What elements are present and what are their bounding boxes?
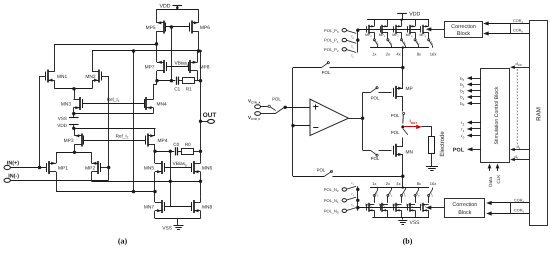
wire MP5 source to VDD [156,9,158,22]
svg-text:fb: fb [377,40,380,45]
svg-text:POL_N2: POL_N2 [324,187,339,193]
wire to electrode [422,127,432,137]
wire input d4 [510,145,529,152]
wire MN1 drain from switch [387,196,389,203]
power VDD supply (top of amplifier) [160,3,183,9]
transistor MN6 [192,161,213,174]
svg-text:MN2: MN2 [85,74,95,80]
switch POL (bottom rail) [317,168,333,177]
wire MN2 source to tail [92,80,94,89]
wire output r0 [461,133,481,139]
svg-text:fb: fb [417,192,420,197]
wire MN7/MN8 gate line [164,206,191,208]
wire MP4 drain to switch [428,32,430,39]
wire gate node to compensation [171,27,173,81]
wire VSS rail [155,219,201,226]
wire MN drain [402,138,404,147]
wire output b4 [460,76,481,82]
transistor MP (driver) [394,86,413,99]
wire MN source [402,155,404,177]
wire MP0 source to rail [374,20,376,27]
svg-text:r0: r0 [352,202,355,207]
svg-text:COR0: COR0 [513,28,523,33]
wire node MN1-drain/MP5-drain (y=44) [55,44,157,46]
wire MN8 source [200,211,202,219]
wire correction to bottom bank gates [426,206,445,210]
svg-text:d200: d200 [516,62,523,67]
svg-text:MP8: MP8 [200,65,210,71]
wire POL bottom rail [293,175,404,178]
svg-text:1x: 1x [372,181,376,186]
svg-text:Stimulation Control Block: Stimulation Control Block [494,86,500,144]
svg-text:f2: f2 [352,54,355,59]
wire MP3 drain to switch [415,32,417,39]
transistor MN2 [85,70,101,83]
svg-text:MP2: MP2 [392,33,399,38]
switch input select [261,105,276,111]
svg-text:MN1: MN1 [57,74,67,80]
wire COR4 (bottom) [486,198,529,205]
wire top bank gate line [358,29,421,31]
wire top bank VDD rail [367,19,429,21]
switch f (top bank 2x) [387,39,393,48]
svg-text:VDD: VDD [160,3,171,9]
transistor MP6 [190,21,211,34]
label Ref_I1 [107,97,120,103]
terminal IN(-) [4,174,109,183]
transistor MP4 (top bank) [420,25,429,38]
switch POL_P2 [347,50,356,59]
wire comp tap to output mirror gates [170,151,172,206]
svg-text:OUT: OUT [203,112,217,119]
svg-text:POL: POL [391,130,400,135]
wire MP1 source to rail [387,20,389,27]
wire C1 to R1 [179,80,183,82]
switch f (bottom bank 8x) [414,188,420,198]
svg-text:MP1: MP1 [379,33,386,38]
label 2x (bottom bank) [386,181,390,186]
wire MN5/MN6 gate line [164,167,191,169]
wire MN1 source to VSS rail [387,210,389,217]
power VSS bar (bias) [58,114,79,121]
wire input d200 [510,62,529,69]
wire MN5 source down [154,172,156,197]
label 1x (bottom bank) [372,181,376,186]
transistor MP3 (top bank) [406,25,415,38]
wire d bus dashed [516,69,518,146]
terminal POL_N1 [324,198,347,204]
node OUT [199,120,202,123]
switch POL (below node) [391,129,408,136]
svg-text:b1: b1 [460,95,464,101]
svg-text:R0: R0 [185,142,191,147]
svg-text:VSS: VSS [162,225,172,231]
wire COR0 (bottom) [486,203,529,216]
wire input CLK [496,164,502,184]
wire MN4 source to VSS rail [428,210,430,217]
wire MN6 drain [200,162,202,164]
wire V_CTR_C branch [261,107,286,113]
caption (b) [403,237,413,246]
svg-text:1x: 1x [372,52,376,57]
wire MN1 source to tail [54,80,56,89]
wire tail rail [55,87,93,90]
wire MP7 drain [155,71,158,83]
svg-text:16x: 16x [430,181,436,186]
wire COR0 (top) [483,24,529,36]
wire MN3 source [72,108,75,116]
svg-text:(b): (b) [403,237,413,246]
svg-text:POL: POL [391,113,400,118]
wire upper branch [363,92,371,94]
terminal POL_N2 [324,187,347,193]
svg-text:MP3: MP3 [64,138,74,144]
wire R0 to OUT rail [194,150,203,153]
svg-text:IOUT: IOUT [410,119,418,125]
wire POL_N join vertical [356,186,359,210]
svg-text:POL: POL [371,96,380,101]
transistor MN0 (bottom bank) [365,203,374,212]
svg-text:MP6: MP6 [200,25,210,31]
wire bottom bank VSS rail [372,217,429,219]
power VDD supply (top bank) [397,11,420,19]
svg-text:POL: POL [453,147,465,153]
svg-text:Block: Block [457,31,470,37]
svg-text:MN6: MN6 [202,166,212,172]
wire R1 to OUT rail [195,79,203,82]
wire MN5 drain [154,151,156,163]
wire output b2 [460,88,481,94]
svg-text:RAM: RAM [536,107,543,121]
svg-text:b4: b4 [460,76,464,82]
switch POL_N0 [347,202,356,210]
svg-text:POL_P1: POL_P1 [324,38,339,44]
switch f (top bank 16x) [428,39,434,48]
switch POL_P1 [347,40,356,49]
transistor MN5 [144,161,165,174]
wire MN1 drain [54,44,56,72]
svg-text:Correction: Correction [451,24,476,30]
svg-text:8x: 8x [417,52,421,57]
wire output branch vertical [362,92,364,150]
wire MN0 drain from switch [374,196,376,203]
wire electrode to ground [431,153,433,166]
wire tail to MN3 drain [74,89,76,99]
wire VDD rail [157,9,199,11]
svg-text:r1: r1 [461,127,464,133]
svg-text:C1: C1 [174,86,180,91]
switch POL (top rail) [322,62,331,75]
terminal OUT [203,112,217,123]
transistor MP5 [146,21,166,34]
wire Ref_I2 gate line [84,140,146,142]
svg-text:MN8: MN8 [202,205,212,211]
block RAM [530,21,548,226]
wire comp row bottom-left [155,150,174,153]
wire bottom bank rail [370,176,429,189]
label 16x (bottom bank) [430,181,436,186]
svg-text:MP: MP [406,86,413,92]
wire correction to top bank gates [426,27,445,31]
wire MN3 drain from switch [415,196,417,203]
switch f (bottom bank 1x) [373,188,379,198]
wire OUT rail [200,51,202,162]
wire MP4 source to rail [428,20,430,27]
svg-text:Data: Data [488,177,493,187]
label POL (input switch) [272,97,281,102]
svg-text:CLK: CLK [496,174,501,184]
svg-text:POL: POL [322,70,331,75]
svg-text:4x: 4x [396,181,400,186]
wire lower branch [363,150,371,152]
transistor MP2 [85,161,100,174]
svg-text:r2: r2 [352,181,355,186]
svg-text:Correction: Correction [452,202,477,208]
svg-text:VBiasb: VBiasb [173,161,188,167]
svg-text:Electrode: Electrode [439,131,446,157]
label 4x (top bank) [396,52,400,57]
svg-text:VCTR_C: VCTR_C [248,115,260,121]
wire POL_P join vertical [356,29,359,53]
svg-text:4x: 4x [396,52,400,57]
svg-text:POL: POL [371,156,380,161]
svg-text:VSS: VSS [410,220,421,226]
block Correction (top) [445,22,483,38]
terminal IN(+) [4,160,47,169]
caption (a) [118,237,128,246]
terminal POL_P0 [324,28,346,34]
wire input d0 [510,155,529,162]
svg-text:POL_P0: POL_P0 [324,28,339,34]
wire OUT stub [201,121,208,123]
wire MP5/MP6 gate line [166,25,189,28]
svg-text:Block: Block [458,210,471,216]
svg-text:b3: b3 [460,82,464,88]
svg-text:MP1: MP1 [58,166,68,172]
switch f (bottom bank 2x) [387,188,393,198]
svg-text:VSS: VSS [58,116,67,121]
node comparator plus input [284,106,287,109]
svg-text:VBiasa: VBiasa [175,61,190,67]
wire VDD wire (y=128.3) [74,128,156,130]
wire minus input [291,124,310,127]
switch f (top bank 8x) [414,39,420,48]
wire MN7 source [154,211,156,219]
transistor MN3 (bottom bank) [406,203,415,212]
wire MN2 drain from switch [401,196,403,203]
svg-text:r2: r2 [461,120,464,126]
wire MP2 source to rail [401,20,403,27]
wire MP1 drain [56,172,58,192]
resistor Electrode [429,131,447,157]
switch POL_P0 [347,31,356,40]
terminal POL_P1 [324,38,346,44]
svg-text:b0: b0 [460,101,464,107]
terminal POL_N0 [324,208,347,214]
svg-text:f0: f0 [352,35,355,40]
wire MP3 source to rail [415,20,417,27]
label 8x (bottom bank) [417,181,421,186]
svg-text:fb: fb [431,40,434,45]
transistor MP3 [64,134,84,147]
transistor MP1 (top bank) [379,25,388,38]
wire MP8 source [197,51,199,62]
wire MP0 drain to switch [374,32,376,39]
svg-text:POL: POL [317,168,326,173]
svg-text:MP4: MP4 [158,138,168,144]
wire input Data [488,164,494,187]
svg-text:fb: fb [390,192,393,197]
svg-text:2x: 2x [386,52,390,57]
svg-text:VCTR_A: VCTR_A [248,98,260,104]
label VBias_b [173,161,188,167]
transistor MP2 (top bank) [392,25,401,38]
wire VSS wire (y=113.6) [74,113,154,115]
wire MP2 drain [91,172,93,182]
label 4x (bottom bank) [396,181,400,186]
wire MP6 drain [197,31,202,53]
svg-text:r1: r1 [352,192,355,197]
label 2x (top bank) [386,52,390,57]
label 16x (top bank) [430,52,436,57]
transistor MN1 [46,70,68,83]
wire MP1 gate lead [40,167,47,169]
wire MP1-drain to MN5-source (y=191.6) [56,190,157,193]
wire MP6 source to VDD [198,9,200,22]
svg-text:fb: fb [390,40,393,45]
wire MP drain [402,97,404,112]
label 1x (top bank) [372,52,376,57]
terminal POL_P2 [324,47,346,53]
svg-text:POL: POL [272,97,281,102]
wire cross-connect x=133.5 [132,51,135,193]
current arrow I_OUT [404,119,421,130]
wire MP2 drain to switch [401,32,403,39]
transistor MN3 [61,97,83,110]
wire MP source [402,68,404,89]
wire MN2 gate riser [101,76,110,180]
svg-text:2x: 2x [386,181,390,186]
transistor MN (driver) [394,144,414,157]
svg-text:POL_N1: POL_N1 [324,198,339,204]
svg-text:8x: 8x [417,181,421,186]
wire node MN2-drain/MP6-drain (y=51) [92,49,201,52]
transistor MN8 [192,200,213,213]
wire MN6 source down [200,172,202,197]
wire MP1 drain to switch [387,32,389,39]
resistor R1 [183,78,195,92]
transistor MP7 [145,60,167,73]
svg-text:r0: r0 [461,133,464,139]
ground (electrode) [426,167,438,171]
svg-text:fb: fb [431,192,434,197]
wire MP8 drain [198,71,201,81]
wire MN4 source [153,108,155,114]
node output (I_OUT) [401,125,404,128]
wire MP7/MP8 gate line [166,66,188,68]
svg-text:Ref_I2: Ref_I2 [116,133,129,139]
wire MP2-drain to MN6-source (y=181.3) [92,180,203,183]
wire output POL [453,147,481,153]
svg-text:MP5: MP5 [146,25,156,31]
svg-text:16x: 16x [430,52,436,57]
switch f (bottom bank 4x) [400,188,406,198]
block Correction (bottom) [445,199,485,218]
wire comparator output [349,117,365,120]
wire Ref_I1 gate line [83,103,145,105]
svg-text:COR0: COR0 [514,208,524,213]
wire MP4 source [154,128,156,136]
svg-text:VDD: VDD [57,123,67,128]
svg-text:POL_N0: POL_N0 [324,208,339,214]
switch f (bottom bank 16x) [428,188,434,198]
svg-text:MN7: MN7 [144,205,154,211]
transistor MN4 [145,97,167,110]
resistor R0 [182,142,194,155]
transistor MP4 [146,134,168,147]
wire MN2 source to VSS rail [401,210,403,217]
wire MN0 source to VSS rail [374,210,376,217]
transistor MN7 [144,200,165,213]
wire C0 to R0 [178,151,182,153]
wire plus input [285,107,310,109]
svg-text:fb: fb [417,40,420,45]
wire output b3 [460,82,481,88]
wire MP2 gate lead [101,167,109,169]
svg-text:MN5: MN5 [144,166,154,172]
capacitor C0 [173,142,179,156]
wire MN8 drain [200,197,202,203]
wire MP5 drain [155,31,158,46]
svg-text:MP0: MP0 [365,33,372,38]
transistor MN1 (bottom bank) [379,203,388,212]
wire POL left vertical [292,68,294,177]
svg-text:R1: R1 [186,86,192,91]
switch POL_N2 [347,181,356,189]
svg-text:POL_P2: POL_P2 [324,47,339,53]
label 8x (top bank) [417,52,421,57]
wire MN7 drain [154,197,156,203]
wire MN4 drain [154,81,158,100]
wire MP3 source [74,128,76,136]
svg-text:MP7: MP7 [145,65,155,71]
wire output r2 [461,120,481,126]
switch POL (MN gate) [371,150,392,161]
power VDD bar (bias) [57,123,78,130]
svg-text:MP4: MP4 [420,33,427,38]
switch POL_N1 [347,192,356,200]
svg-text:f1: f1 [352,45,355,50]
transistor MP8 [189,60,210,73]
terminal V_CTR_A [248,98,261,108]
wire MN1 gate riser [38,76,45,169]
transistor MP1 [47,161,69,174]
ground VSS (bottom bank) [398,220,420,226]
svg-text:MN: MN [406,150,414,156]
wire comp row top-left [157,79,175,82]
svg-text:fb: fb [404,40,407,45]
transistor MN2 (bottom bank) [393,203,402,212]
transistor MN4 (bottom bank) [420,203,429,212]
wire bottom bank gate line [356,206,421,209]
wire MN4 drain from switch [428,196,430,203]
svg-text:VDD: VDD [409,11,420,17]
op-amp comparator U1 [310,99,349,135]
wire MP3 drain to pair rail [73,144,76,154]
wire output r1 [461,127,481,133]
wire MP1/MP2 source rail [56,152,92,163]
transistor MP0 (top bank) [365,25,374,38]
